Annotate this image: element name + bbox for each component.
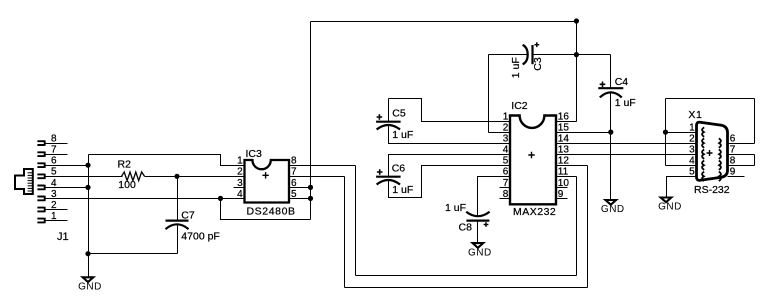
- wire IC2 pin7 stub: [500, 187, 511, 189]
- svg-text:4: 4: [689, 156, 695, 167]
- capacitor C6 top plate: [376, 176, 401, 178]
- connector X1 DB9 body: [697, 122, 728, 180]
- junction C4 / pin15: [608, 130, 613, 135]
- svg-text:GND: GND: [468, 247, 492, 258]
- wire bottom rail 2: [356, 275, 577, 277]
- junction R2 / C7: [174, 174, 179, 179]
- wire GND drop below J1: [88, 254, 90, 277]
- svg-text:1: 1: [237, 156, 243, 167]
- wire R2 to IC3 pin2: [145, 176, 245, 178]
- wire X1 pin6: [728, 143, 755, 145]
- wire C3 row left segment: [489, 54, 528, 56]
- wire C4 drop from C3 row: [610, 55, 612, 89]
- svg-text:14: 14: [558, 134, 570, 145]
- J1 pin 2 fork: [37, 207, 44, 212]
- wire bottom rail 3: [345, 287, 588, 289]
- wire VCC vertical x310: [310, 22, 312, 220]
- svg-text:IC2: IC2: [511, 100, 528, 112]
- X1 plus mark: [707, 150, 713, 156]
- X1 left pin contacts: [702, 127, 704, 136]
- svg-text:C6: C6: [392, 162, 406, 174]
- C5 plus sign: [377, 114, 383, 120]
- svg-text:2: 2: [503, 123, 509, 134]
- wire top VCC rail: [311, 21, 577, 23]
- svg-text:6: 6: [51, 156, 57, 167]
- svg-text:X1: X1: [688, 109, 702, 121]
- wire J1 pin3 to IC3 pin4: [46, 198, 245, 200]
- wire J1 pin8 stub: [46, 143, 68, 145]
- J1 pin 3 fork: [37, 196, 44, 201]
- wire IC3 pin7 to vertical: [290, 176, 345, 178]
- wire X1 loop top: [666, 98, 755, 100]
- wire C4 to MAX232 pin15 and GND: [610, 93, 612, 200]
- capacitor C8 straight plate (bottom): [466, 220, 489, 222]
- wire C8 bottom to GND: [477, 221, 479, 243]
- svg-text:C8: C8: [459, 221, 473, 233]
- J1 pin 1 fork: [37, 218, 44, 223]
- svg-text:1: 1: [689, 123, 695, 134]
- wire X1 tie vertical: [665, 99, 667, 166]
- wire X1 pin1: [666, 132, 697, 134]
- op-amp — IC3 DS2480B body: [245, 160, 290, 203]
- C4 plus sign: [600, 82, 606, 88]
- wire IC3 pin5 to VCC vertical: [290, 198, 311, 200]
- capacitor C4 bottom arc plate: [600, 92, 622, 97]
- svg-text:16: 16: [558, 111, 570, 122]
- junction X1 pin1 tie: [663, 130, 668, 135]
- svg-text:C3: C3: [532, 57, 544, 71]
- capacitor C3 straight plate (right): [531, 45, 533, 64]
- svg-text:6: 6: [730, 134, 736, 145]
- wire IC3 pin7 vertical x344: [344, 177, 346, 288]
- wire J1 pin5 to R2: [46, 176, 123, 178]
- wire C7 top stub: [177, 177, 179, 221]
- ground symbol GND below J1: [83, 277, 94, 282]
- svg-text:4: 4: [237, 189, 243, 200]
- wire C5 top stub: [388, 99, 390, 122]
- wire X1 pin8: [728, 165, 755, 167]
- svg-text:GND: GND: [78, 282, 102, 293]
- junction J1 pin4 / ground: [85, 185, 90, 190]
- svg-text:GND: GND: [601, 204, 625, 215]
- wire C6 top to MAX232 pin4: [389, 155, 511, 177]
- wire MAX232 pin12 vertical: [587, 166, 589, 288]
- svg-text:5: 5: [503, 156, 509, 167]
- wire C5 loop to MAX232 pin1: [389, 99, 511, 122]
- wire MAX232 pin12: [557, 165, 588, 167]
- wire MAX232 pin11: [557, 176, 577, 178]
- C6 plus sign: [377, 169, 383, 175]
- wire node A drop from pin3 row: [221, 199, 311, 220]
- svg-text:C4: C4: [615, 76, 629, 88]
- wire C3 row right segment: [534, 54, 611, 56]
- svg-text:DS2480B: DS2480B: [247, 206, 296, 218]
- wire C8 top to MAX232 pin6: [478, 177, 511, 217]
- wire X1 pin9 stub: [728, 176, 745, 178]
- wire X1 pin5 to GND: [667, 177, 697, 197]
- svg-text:3: 3: [689, 145, 695, 156]
- wire J1 pin1 stub: [46, 220, 68, 222]
- IC — IC2 MAX232 body: [510, 116, 556, 205]
- J1 pin 4 fork: [37, 185, 44, 190]
- wire MAX232 pin14 to X1 pin2: [557, 143, 697, 145]
- wire bottom rail GND to C7: [89, 253, 178, 255]
- wire C5 bottom to MAX232 pin3: [389, 126, 511, 144]
- capacitor C8 arc plate (top): [466, 212, 489, 217]
- ground symbol GND below X1 pin5: [661, 198, 672, 203]
- J1 pin 7 fork: [37, 152, 44, 157]
- wire IC2 pin8 stub: [500, 198, 511, 200]
- svg-text:12: 12: [558, 156, 570, 167]
- C3 plus sign: [534, 42, 539, 47]
- X1 right pin contacts: [719, 138, 721, 147]
- wire J1 pin7 stub: [46, 154, 68, 156]
- wire MAX232 pin11 vertical: [576, 177, 578, 276]
- capacitor C3 arc plate (left): [523, 45, 528, 64]
- svg-text:1 uF: 1 uF: [392, 184, 413, 196]
- wire MAX232 pin13 to X1 pin3: [557, 154, 697, 156]
- capacitor C7 top plate: [166, 220, 189, 222]
- wire X1 loop right down to pin6: [754, 99, 756, 144]
- svg-text:11: 11: [558, 167, 569, 178]
- junction top rail / drop: [574, 18, 579, 23]
- svg-text:1 uF: 1 uF: [615, 97, 636, 109]
- ground symbol GND below C8: [473, 243, 484, 248]
- junction IC3 pin6 / VCC: [308, 185, 313, 190]
- svg-text:1: 1: [503, 111, 509, 122]
- J1 pin 6 fork: [37, 163, 44, 168]
- wire J1 pin4 to ground vertical: [46, 187, 89, 189]
- svg-text:J1: J1: [57, 231, 69, 243]
- wire C7 bottom stub to rail: [177, 225, 179, 254]
- wire IC2 pin9 stub: [557, 198, 568, 200]
- wire X1 pin7: [728, 154, 755, 156]
- svg-text:1 uF: 1 uF: [392, 129, 413, 141]
- svg-text:1 uF: 1 uF: [510, 57, 522, 78]
- svg-text:C5: C5: [392, 107, 406, 119]
- wire X1 pin7-pin8 loop: [754, 155, 756, 166]
- resistor R2 zigzag: [122, 172, 145, 181]
- svg-text:7: 7: [51, 145, 57, 156]
- ground symbol GND below C4: [606, 200, 617, 205]
- wire J1 pin2 stub: [46, 209, 68, 211]
- capacitor C6 bottom arc plate: [377, 180, 400, 185]
- svg-text:1 uF: 1 uF: [445, 202, 466, 214]
- junction J1 pin3 / IC3 pin4 / drop: [218, 196, 223, 201]
- wire ground jog to IC3 pin1: [89, 155, 245, 166]
- junction IC3 pin5 / VCC: [308, 196, 313, 201]
- wire IC2 pin2 to C3 loop: [489, 132, 511, 134]
- wire IC2 pin10 stub: [557, 187, 568, 189]
- J1 pin 5 fork: [37, 174, 44, 179]
- svg-text:8: 8: [51, 134, 57, 145]
- svg-text:R2: R2: [118, 158, 132, 170]
- svg-text:15: 15: [558, 123, 570, 134]
- C8 plus sign: [484, 222, 489, 227]
- svg-text:13: 13: [558, 145, 570, 156]
- wire MAX232 pin15: [557, 132, 611, 134]
- capacitor C4 top plate: [598, 87, 623, 89]
- capacitor C7 bottom arc plate: [166, 224, 189, 229]
- svg-text:IC3: IC3: [246, 148, 263, 160]
- wire ground vertical x88: [88, 155, 90, 254]
- svg-text:4700 pF: 4700 pF: [181, 231, 220, 243]
- wire IC3 pin6 to VCC vertical: [290, 187, 311, 189]
- junction J1 pin6 / ground: [85, 163, 90, 168]
- svg-text:100: 100: [118, 179, 136, 191]
- wire IC3 pin8 vertical x355: [355, 166, 357, 276]
- wire C3 loop left vertical: [488, 55, 490, 133]
- svg-text:7: 7: [730, 145, 736, 156]
- IC2 plus mark: [528, 152, 534, 158]
- svg-text:8: 8: [730, 156, 736, 167]
- svg-text:4: 4: [503, 145, 509, 156]
- svg-text:GND: GND: [658, 202, 682, 213]
- wire J1 pin6 to ground vertical: [46, 165, 89, 167]
- svg-text:MAX232: MAX232: [513, 206, 556, 218]
- wire IC3 pin3 stub: [234, 187, 245, 189]
- junction bottom rail / GND: [85, 251, 90, 256]
- junction C3 row / drop: [574, 52, 579, 57]
- wire C6 bottom loop to MAX232 pin5: [389, 166, 511, 198]
- wire IC2 pin16 to C3 vertical: [557, 121, 577, 123]
- capacitor C5 top plate: [376, 121, 401, 123]
- svg-text:RS-232: RS-232: [694, 184, 730, 196]
- wire X1 pin4: [666, 165, 697, 167]
- svg-text:2: 2: [689, 134, 695, 145]
- svg-text:6: 6: [503, 167, 509, 178]
- wire VCC drop to C3 row: [576, 22, 578, 122]
- svg-text:C7: C7: [181, 209, 195, 221]
- capacitor C5 bottom arc plate: [377, 125, 400, 130]
- svg-text:8: 8: [291, 156, 297, 167]
- wire IC3 pin8 to vertical: [290, 165, 356, 167]
- svg-text:3: 3: [503, 134, 509, 145]
- J1 jack contact hatch: [28, 172, 33, 174]
- svg-text:2: 2: [237, 167, 243, 178]
- connector J1 jack body: [15, 169, 33, 194]
- J1 pin 8 fork: [37, 140, 44, 145]
- IC3 plus mark: [262, 172, 268, 178]
